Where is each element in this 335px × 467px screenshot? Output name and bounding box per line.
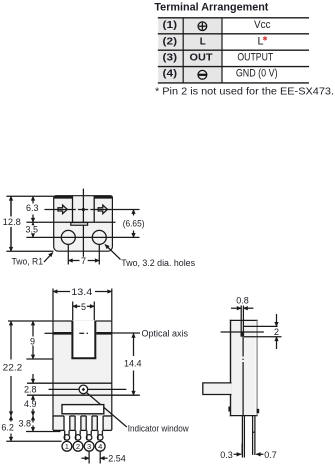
svg-text:Terminal Arrangement: Terminal Arrangement	[154, 1, 268, 13]
svg-text:OUTPUT: OUTPUT	[237, 51, 273, 63]
svg-text:3.8: 3.8	[19, 419, 32, 429]
svg-text:L: L	[257, 36, 263, 48]
svg-text:OUT: OUT	[190, 52, 213, 63]
svg-text:Two, 3.2 dia. holes: Two, 3.2 dia. holes	[121, 258, 195, 268]
svg-text:Indicator window: Indicator window	[128, 423, 189, 433]
svg-text:7: 7	[81, 256, 86, 266]
svg-text:GND (0 V): GND (0 V)	[236, 67, 278, 79]
svg-text:(1): (1)	[163, 20, 178, 31]
svg-text:3.5: 3.5	[26, 224, 39, 234]
svg-text:4: 4	[98, 442, 102, 451]
svg-text:0.8: 0.8	[236, 296, 249, 306]
svg-text:14.4: 14.4	[124, 359, 142, 369]
svg-text:2: 2	[274, 327, 279, 337]
svg-text:5: 5	[81, 302, 86, 312]
svg-text:0.3: 0.3	[220, 450, 233, 460]
svg-text:3: 3	[87, 442, 91, 451]
svg-text:L: L	[200, 36, 206, 47]
svg-text:(4): (4)	[163, 68, 178, 79]
svg-text:12.8: 12.8	[3, 217, 21, 227]
svg-text:Optical axis: Optical axis	[142, 328, 189, 338]
svg-text:(6.65): (6.65)	[123, 218, 145, 228]
svg-text:1: 1	[65, 442, 69, 451]
svg-text:0.7: 0.7	[264, 450, 277, 460]
svg-text:6.3: 6.3	[26, 203, 39, 213]
svg-text:(3): (3)	[163, 52, 178, 63]
svg-text:9: 9	[30, 336, 35, 346]
svg-text:* Pin 2 is not used for the EE: * Pin 2 is not used for the EE-SX473.	[155, 87, 334, 98]
svg-text:2.8: 2.8	[24, 384, 37, 394]
svg-text:2.54: 2.54	[108, 453, 126, 463]
svg-text:(2): (2)	[163, 36, 178, 47]
svg-text:13.4: 13.4	[71, 287, 92, 297]
svg-text:Two, R1: Two, R1	[12, 257, 44, 267]
svg-text:4.9: 4.9	[24, 399, 37, 409]
svg-text:22.2: 22.2	[3, 363, 23, 373]
svg-text:2: 2	[76, 442, 80, 451]
svg-text:Vcc: Vcc	[254, 19, 271, 31]
svg-text:6.2: 6.2	[1, 422, 14, 432]
